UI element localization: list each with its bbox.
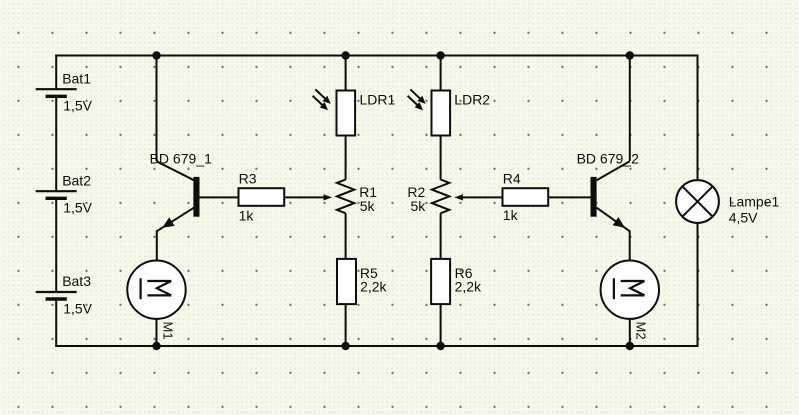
- svg-text:5k: 5k: [360, 198, 376, 214]
- wire top rail: [55, 55, 698, 57]
- wire M2 to bottom rail: [629, 319, 631, 346]
- wire R4 to Q2 base: [548, 196, 592, 198]
- svg-text:Bat1: Bat1: [62, 70, 91, 86]
- wire Q1 collector vertical: [156, 56, 158, 162]
- wire R1 to R5: [345, 213, 347, 259]
- svg-text:Bat2: Bat2: [62, 172, 91, 188]
- wire Q1 base to R3: [199, 196, 239, 198]
- motor M2: [601, 261, 659, 340]
- wire right rail top: [697, 56, 699, 181]
- svg-text:2,2k: 2,2k: [360, 278, 387, 294]
- junction node F: [341, 342, 349, 350]
- wire left rail segment 1: [55, 55, 57, 90]
- wire left rail segment 2: [55, 96, 57, 191]
- svg-text:2,2k: 2,2k: [455, 278, 482, 294]
- potentiometer R1 5k: [337, 180, 377, 215]
- wire R3 to R1 wiper: [284, 196, 323, 198]
- junction node E: [152, 342, 160, 350]
- svg-text:BD 679_1: BD 679_1: [150, 150, 212, 166]
- svg-text:LDR1: LDR1: [360, 92, 396, 108]
- junction node G: [436, 342, 444, 350]
- svg-text:Lampe1: Lampe1: [729, 193, 780, 209]
- resistor R3 1k: [239, 171, 285, 224]
- wire Q2 collector vertical: [629, 56, 631, 162]
- wire R2 to R6: [440, 213, 442, 259]
- wire Q2 emitter vertical: [629, 230, 631, 260]
- junction node D: [626, 51, 634, 59]
- svg-text:1,5V: 1,5V: [63, 98, 92, 114]
- svg-text:R4: R4: [503, 171, 521, 187]
- junction node C: [436, 51, 444, 59]
- potentiometer R2 5k: [407, 180, 449, 215]
- svg-text:Bat3: Bat3: [62, 273, 91, 289]
- svg-text:LDR2: LDR2: [454, 92, 490, 108]
- battery Bat2: [36, 172, 93, 215]
- wire top rail to LDR2: [440, 56, 442, 91]
- wire R6 to bottom rail: [440, 304, 442, 346]
- svg-text:R3: R3: [239, 171, 257, 187]
- svg-text:1,5V: 1,5V: [63, 200, 92, 216]
- lamp Lampe1 4,5V: [676, 180, 779, 225]
- wire R5 to bottom rail: [345, 304, 347, 346]
- wire LDR1 to R1: [345, 136, 347, 180]
- transistor Q2 BD 679_2: [577, 151, 639, 232]
- resistor R4 1k: [503, 171, 549, 224]
- wire bottom rail: [55, 345, 698, 347]
- wire left rail segment 3: [55, 198, 57, 292]
- resistor R6 2,2k: [431, 259, 482, 304]
- svg-text:M1: M1: [160, 322, 175, 340]
- svg-text:1,5V: 1,5V: [63, 300, 92, 316]
- wire R2 wiper to R4: [463, 196, 503, 198]
- resistor R5 2,2k: [337, 259, 388, 304]
- LDR LDR1: [313, 89, 396, 135]
- transistor Q1 BD 679_1: [150, 150, 212, 231]
- wire Q1 emitter vertical: [156, 230, 158, 260]
- wire right rail bottom: [697, 223, 699, 346]
- svg-text:4,5V: 4,5V: [729, 209, 758, 225]
- junction node A: [152, 51, 160, 59]
- svg-text:5k: 5k: [411, 198, 427, 214]
- wire M1 to bottom rail: [156, 319, 158, 346]
- battery Bat1: [36, 70, 93, 113]
- svg-text:1k: 1k: [503, 207, 519, 223]
- R1 wiper arrow: [324, 194, 333, 200]
- R2 wiper arrow: [454, 194, 463, 200]
- wire top rail to LDR1: [345, 56, 347, 91]
- svg-text:M2: M2: [634, 322, 649, 340]
- battery Bat3: [36, 273, 93, 316]
- wire left rail segment 4: [55, 299, 57, 346]
- junction node B: [341, 51, 349, 59]
- wire LDR2 to R2: [440, 136, 442, 180]
- motor M1: [127, 261, 185, 340]
- LDR LDR2: [408, 89, 491, 135]
- junction node H: [626, 342, 634, 350]
- svg-text:1k: 1k: [239, 208, 255, 224]
